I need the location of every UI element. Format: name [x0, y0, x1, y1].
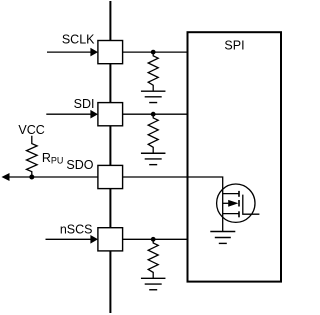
transistor Q1 (open-drain MOSFET) [217, 184, 260, 222]
SPI box U1 [188, 32, 282, 281]
box nSCS [98, 228, 123, 251]
resistor SDI pulldown [148, 116, 158, 153]
svg-text:SDO: SDO [66, 158, 93, 172]
box SDI [98, 103, 123, 126]
svg-text:SCLK: SCLK [62, 33, 95, 47]
source stub [223, 213, 239, 215]
bus wire (vertical) [109, 1, 111, 313]
wire SDO to SPI and down to MOSFET [123, 177, 223, 232]
wire SCLK to SPI [123, 51, 189, 53]
arrowhead SDI [90, 110, 98, 119]
resistor R_PU [27, 136, 38, 177]
wire SDI input [46, 113, 91, 115]
op circle [217, 184, 255, 222]
channel segments [238, 191, 240, 217]
ground nSCS [141, 278, 166, 289]
wire SCLK input [47, 51, 92, 53]
arrowhead SDO (points left) [2, 173, 10, 181]
resistor SCLK pulldown [148, 54, 158, 91]
ground SDI [141, 153, 166, 164]
wire SDO left [9, 176, 98, 178]
svg-text:VCC: VCC [18, 123, 44, 137]
wire nSCS input [46, 238, 92, 240]
drain stub [223, 193, 239, 195]
ground Q1 [210, 232, 235, 244]
node SDO junction (pull-up) [29, 175, 34, 180]
svg-text:SPI: SPI [224, 39, 244, 53]
ground SCLK [141, 91, 166, 102]
wire SDI to SPI [123, 113, 189, 115]
resistor nSCS pulldown [148, 241, 158, 278]
node SDI junction [151, 112, 156, 117]
svg-text:SDI: SDI [74, 97, 95, 111]
body line [223, 202, 229, 204]
node SCLK junction [151, 50, 156, 55]
arrowhead SCLK [90, 48, 98, 57]
svg-text:nSCS: nSCS [60, 223, 93, 237]
body arrow Q1 [228, 200, 238, 207]
box SDO [98, 165, 123, 188]
box SCLK [98, 41, 123, 64]
arrowhead nSCS [90, 235, 98, 244]
wire nSCS to SPI [123, 238, 189, 240]
node nSCS junction [151, 237, 156, 242]
gate bar and lead [243, 195, 260, 215]
